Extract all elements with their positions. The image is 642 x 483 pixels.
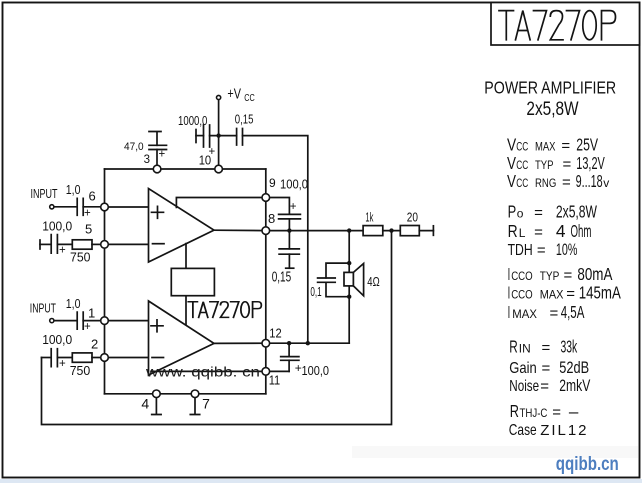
- svg-text:www. qqibb. cn: www. qqibb. cn: [145, 364, 260, 380]
- svg-text:CC: CC: [516, 176, 528, 190]
- svg-text:1k: 1k: [365, 210, 373, 225]
- svg-text:5: 5: [85, 222, 92, 237]
- svg-text:–: –: [569, 402, 579, 421]
- svg-text:CCO: CCO: [511, 287, 533, 301]
- svg-text:=: =: [566, 285, 575, 302]
- svg-text:750: 750: [70, 363, 91, 378]
- svg-text:TDH: TDH: [508, 242, 533, 259]
- svg-text:=: =: [561, 138, 570, 155]
- svg-text:+: +: [84, 208, 91, 220]
- svg-text:2x5,8W: 2x5,8W: [556, 201, 598, 221]
- svg-text:4Ω: 4Ω: [367, 275, 379, 289]
- svg-text:750: 750: [70, 249, 91, 264]
- svg-text:RNG: RNG: [535, 176, 556, 190]
- svg-text:=: =: [540, 378, 549, 395]
- svg-text:3: 3: [144, 154, 150, 166]
- svg-text:9...18: 9...18: [576, 171, 603, 191]
- svg-text:52dB: 52dB: [559, 359, 589, 377]
- svg-text:1,0: 1,0: [66, 182, 81, 197]
- svg-text:R: R: [508, 221, 518, 241]
- svg-text:25V: 25V: [576, 135, 598, 155]
- svg-text:V: V: [507, 171, 516, 191]
- svg-text:v: v: [603, 176, 609, 190]
- svg-text:80mA: 80mA: [577, 264, 612, 284]
- svg-text:V: V: [507, 135, 517, 155]
- svg-text:=: =: [542, 340, 551, 357]
- svg-text:=: =: [552, 404, 561, 421]
- svg-text:CC: CC: [516, 140, 528, 154]
- svg-text:Case: Case: [509, 422, 537, 439]
- svg-text:8: 8: [268, 211, 275, 226]
- svg-text:CC: CC: [244, 93, 255, 104]
- svg-text:6: 6: [89, 189, 96, 204]
- svg-text:2x5,8W: 2x5,8W: [526, 98, 579, 120]
- svg-text:33k: 33k: [561, 337, 578, 357]
- svg-text:R: R: [509, 337, 518, 357]
- svg-text:7: 7: [202, 395, 210, 411]
- svg-text:2mkV: 2mkV: [559, 377, 590, 395]
- svg-text:MAX: MAX: [512, 307, 537, 321]
- svg-text:11: 11: [269, 372, 281, 387]
- svg-text:Gain: Gain: [509, 360, 536, 377]
- svg-text:=: =: [563, 156, 572, 173]
- svg-text:+V: +V: [227, 87, 241, 103]
- svg-text:4: 4: [141, 395, 149, 411]
- svg-text:=: =: [534, 204, 543, 221]
- svg-text:100,0: 100,0: [280, 178, 308, 192]
- svg-text:=: =: [542, 360, 551, 377]
- svg-text:=: =: [562, 174, 571, 191]
- svg-text:9: 9: [269, 176, 276, 190]
- svg-text:+: +: [290, 201, 297, 213]
- svg-text:0,15: 0,15: [235, 112, 254, 127]
- svg-text:POWER AMPLIFIER: POWER AMPLIFIER: [484, 77, 616, 97]
- svg-text:Noise: Noise: [509, 378, 539, 395]
- svg-text:TYP: TYP: [540, 269, 560, 283]
- svg-text:MAX: MAX: [535, 140, 556, 154]
- svg-text:1000,0: 1000,0: [178, 113, 207, 128]
- svg-text:1,0: 1,0: [66, 296, 81, 311]
- svg-text:100,0: 100,0: [42, 218, 72, 233]
- svg-text:I: I: [508, 282, 511, 302]
- svg-text:4: 4: [556, 221, 566, 241]
- svg-text:MAX: MAX: [540, 287, 564, 301]
- svg-text:TYP: TYP: [535, 158, 554, 172]
- svg-text:10%: 10%: [556, 241, 578, 259]
- svg-text:4,5A: 4,5A: [561, 302, 585, 322]
- svg-text:0,1: 0,1: [310, 284, 321, 299]
- svg-text:47,0: 47,0: [124, 141, 144, 153]
- svg-text:R: R: [510, 401, 519, 421]
- svg-text:=: =: [550, 305, 559, 322]
- svg-text:L: L: [519, 226, 526, 240]
- svg-text:1: 1: [88, 306, 95, 321]
- svg-text:qqibb.cn: qqibb.cn: [556, 454, 619, 475]
- svg-text:INPUT: INPUT: [30, 302, 56, 316]
- svg-text:THJ-C: THJ-C: [520, 406, 548, 420]
- svg-text:2: 2: [91, 337, 98, 352]
- svg-text:o: o: [517, 206, 524, 220]
- svg-text:CC: CC: [516, 158, 528, 172]
- svg-text:P: P: [508, 201, 517, 221]
- svg-text:Ohm: Ohm: [571, 221, 592, 241]
- svg-text:20: 20: [407, 210, 418, 225]
- svg-text:I: I: [508, 302, 511, 322]
- svg-text:IN: IN: [519, 342, 531, 356]
- svg-text:100,0: 100,0: [302, 364, 330, 378]
- svg-text:+: +: [59, 245, 66, 257]
- svg-text:=: =: [537, 242, 546, 259]
- svg-text:=: =: [564, 267, 573, 284]
- svg-text:0,15: 0,15: [272, 269, 292, 285]
- svg-text:INPUT: INPUT: [31, 187, 58, 201]
- svg-text:+: +: [59, 358, 66, 370]
- svg-text:+: +: [159, 149, 166, 161]
- svg-text:CCO: CCO: [511, 269, 533, 283]
- svg-text:I: I: [508, 264, 511, 284]
- svg-text:12: 12: [269, 326, 281, 341]
- svg-text:+: +: [84, 321, 91, 333]
- svg-text:=: =: [534, 224, 543, 241]
- svg-text:+: +: [209, 146, 216, 158]
- svg-text:ZIL12: ZIL12: [540, 422, 589, 439]
- svg-text:100,0: 100,0: [42, 332, 72, 347]
- svg-text:145mA: 145mA: [579, 282, 621, 302]
